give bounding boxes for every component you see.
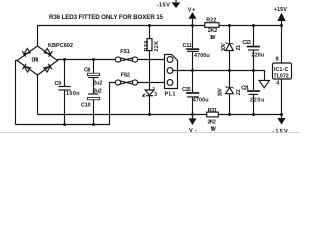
- svg-text:220u: 220u: [250, 97, 264, 103]
- svg-text:4700u: 4700u: [193, 98, 209, 104]
- svg-text:C9: C9: [55, 81, 62, 87]
- svg-text:PL1: PL1: [165, 91, 176, 97]
- svg-text:R36 LED3 FITTED ONLY FOR BOXER: R36 LED3 FITTED ONLY FOR BOXER 15: [49, 14, 164, 21]
- svg-text:100n: 100n: [66, 91, 80, 97]
- svg-text:10V: 10V: [217, 88, 223, 97]
- wire bridge left vertex down to outer bottom bus: [16, 61, 18, 125]
- wire top rail R22 to +15V node: [219, 25, 282, 27]
- svg-text:+15V: +15V: [274, 7, 287, 13]
- fuse FS1: [115, 49, 137, 62]
- resistor R36: [144, 26, 160, 90]
- svg-text:DR1: DR1: [32, 58, 39, 64]
- svg-text:2u2: 2u2: [93, 89, 102, 95]
- capacitor C10: [81, 78, 102, 125]
- page edge rule: [0, 132, 300, 134]
- resistor R22: [205, 17, 219, 41]
- svg-text:4700u: 4700u: [194, 53, 210, 59]
- wire bridge bottom vertex down to inner bottom rail: [37, 75, 39, 115]
- svg-text:-15V: -15V: [272, 129, 288, 135]
- fuse FS2: [115, 72, 137, 85]
- node +15V flag: [274, 7, 287, 25]
- svg-text:1W: 1W: [211, 126, 217, 132]
- zener Z1: [221, 26, 242, 71]
- svg-text:TL072: TL072: [274, 73, 289, 79]
- node V- flag: [189, 115, 198, 134]
- svg-text:R36: R36: [144, 40, 150, 51]
- wire bottom rail right segment: [218, 114, 281, 116]
- svg-text:R22: R22: [206, 17, 216, 23]
- svg-text:V-: V-: [189, 128, 197, 134]
- wire bridge right vertex to FS1: [58, 60, 116, 61]
- svg-text:C15: C15: [182, 87, 191, 93]
- svg-text:10V: 10V: [221, 42, 227, 51]
- node -15V flag top: [157, 0, 181, 9]
- svg-text:220u: 220u: [252, 53, 265, 59]
- svg-text:1W: 1W: [210, 35, 217, 41]
- svg-text:V+: V+: [188, 8, 196, 14]
- capacitor C8: [84, 60, 102, 87]
- svg-text:2K2: 2K2: [208, 120, 216, 126]
- wire outer bottom bus: [16, 83, 116, 125]
- svg-text:C13: C13: [242, 40, 250, 46]
- svg-text:8: 8: [276, 57, 279, 63]
- wire FS1 to PL1 pin1: [137, 59, 167, 61]
- zener Z2: [217, 71, 242, 115]
- node V+ flag: [188, 8, 197, 26]
- capacitor C13: [242, 26, 264, 71]
- wire PL1 pin2 0V line to ground: [173, 71, 265, 81]
- node -15V flag bottom: [272, 115, 288, 136]
- svg-text:KBPC602: KBPC602: [48, 43, 73, 49]
- connector PL1: [165, 55, 178, 98]
- svg-text:Z1: Z1: [236, 45, 242, 51]
- svg-text:C8: C8: [84, 67, 90, 73]
- capacitor C11: [183, 26, 210, 71]
- op-amp IC1-C TL072 power box: [273, 26, 292, 115]
- capacitor C21: [241, 71, 264, 115]
- wire bottom rail left segment: [38, 114, 207, 116]
- capacitor C15: [182, 71, 209, 115]
- bridge rectifier DR1 KBPC602: [17, 43, 73, 75]
- svg-text:IC1-C: IC1-C: [274, 67, 289, 73]
- svg-text:FS1: FS1: [120, 49, 130, 55]
- svg-text:2u2: 2u2: [93, 81, 102, 87]
- svg-text:FS2: FS2: [121, 72, 130, 78]
- svg-text:2K2: 2K2: [208, 28, 217, 34]
- svg-text:C10: C10: [81, 103, 91, 109]
- title text: [49, 14, 164, 21]
- svg-text:-15V: -15V: [157, 3, 170, 9]
- svg-text:22K: 22K: [154, 41, 160, 52]
- wire top rail V+ to R22: [38, 26, 206, 47]
- ground: [259, 80, 269, 87]
- svg-text:3: 3: [154, 92, 157, 98]
- svg-text:4: 4: [276, 81, 279, 87]
- LED3: [143, 87, 158, 114]
- svg-text:C21: C21: [241, 85, 249, 91]
- capacitor C9: [55, 60, 80, 125]
- svg-text:C11: C11: [183, 43, 192, 49]
- resistor R31: [207, 108, 219, 132]
- svg-text:R31: R31: [208, 108, 217, 114]
- wire FS2 to PL1 pin3: [137, 82, 167, 84]
